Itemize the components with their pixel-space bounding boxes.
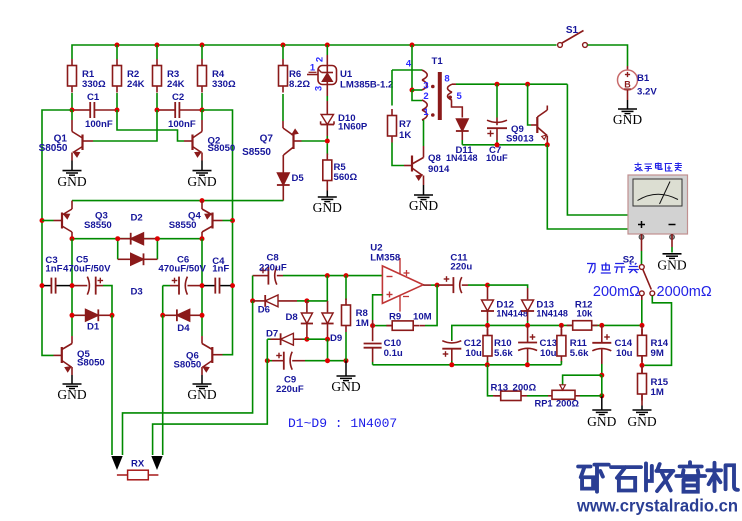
ground GND meter — [657, 254, 686, 273]
label digital voltmeter — [635, 163, 683, 172]
wire C14 col down — [601, 375, 603, 396]
resistor R8 1M — [342, 276, 369, 361]
watermark url — [576, 496, 738, 516]
svg-text:1: 1 — [423, 107, 429, 118]
junction R8 bottom / GND — [344, 358, 349, 363]
ground GND Q6 — [187, 375, 216, 402]
resistor R2 24K — [113, 59, 145, 93]
ground GND R15 — [627, 406, 656, 430]
resistor R4 330 — [198, 59, 237, 93]
wire Q4 base stub — [223, 220, 233, 222]
op-amp U2 LM358 — [370, 243, 423, 312]
pin 5 T1 lead — [452, 91, 463, 118]
junction top rail x=157 — [155, 43, 160, 48]
capacitor C1 100nF — [74, 92, 115, 130]
wire D6 node to probe — [123, 301, 253, 455]
svg-text:2: 2 — [423, 91, 428, 102]
label D1-D9 type — [288, 416, 397, 431]
svg-text:GND: GND — [331, 379, 360, 394]
svg-text:24K: 24K — [167, 79, 185, 90]
junction Q4 emitter — [200, 198, 205, 203]
wire R10 down to R13 — [488, 365, 494, 396]
junction left rail C3 — [40, 283, 45, 288]
wire collector line — [72, 238, 202, 240]
switch S1 — [558, 25, 588, 47]
transistor Q1 S8050 — [39, 110, 93, 161]
pin 2 T1 label — [423, 91, 428, 102]
wire pin1 to Q8 collector — [423, 120, 425, 146]
capacitor C7 10uF — [486, 84, 508, 163]
potentiometer RP1 200 — [535, 385, 581, 409]
svg-text:GND: GND — [409, 198, 438, 213]
resistor R11 5.6k — [557, 325, 589, 364]
svg-text:10k: 10k — [576, 309, 593, 320]
junction bottom line x=487.5 — [485, 362, 490, 367]
svg-text:10u: 10u — [616, 348, 633, 359]
junction y=110 x=117 — [115, 108, 120, 113]
svg-text:24K: 24K — [127, 79, 145, 90]
junction D4 left / C6 — [160, 313, 165, 318]
svg-text:D3: D3 — [131, 287, 143, 298]
diode D9 1N4007 — [321, 301, 342, 344]
wire Q7 base to node — [302, 140, 328, 142]
transistor Q3 S8550 — [54, 201, 112, 239]
wire R2 bottom — [116, 93, 118, 110]
svg-text:S2: S2 — [623, 255, 635, 266]
svg-text:10uF: 10uF — [486, 153, 508, 163]
junction R14 bottom — [640, 363, 645, 368]
junction D1 left — [70, 313, 75, 318]
wire S1 to B1 — [588, 45, 628, 66]
svg-text:220u: 220u — [450, 262, 472, 273]
junction C9 left / D7 wire — [265, 358, 270, 363]
resistor R3 24K — [153, 59, 185, 93]
wire D3 bypass left — [117, 239, 119, 260]
ground GND Q5 — [57, 375, 86, 402]
wire D11 C7 Q9 emitter — [462, 144, 547, 146]
svg-text:C1: C1 — [87, 92, 100, 103]
meter plus lead — [641, 234, 643, 264]
junction bottom line x=452 — [449, 362, 454, 367]
svg-text:1K: 1K — [399, 130, 411, 141]
transformer T1 label — [432, 56, 444, 67]
svg-text:8: 8 — [444, 74, 449, 85]
svg-text:T1: T1 — [432, 56, 444, 67]
wire U2 output — [423, 284, 437, 286]
wire emitter line Q3 Q4 D5 — [72, 200, 283, 202]
wire D4 node to probe — [162, 315, 164, 455]
svg-text:220uF: 220uF — [276, 384, 304, 395]
diode D1 1N4007 — [74, 309, 110, 332]
junction T1 node — [410, 88, 415, 93]
junction D1 right / C5 — [110, 313, 115, 318]
svg-text:S1: S1 — [566, 25, 579, 36]
wire D12 to D13 top — [488, 285, 528, 288]
svg-text:Q8: Q8 — [428, 153, 441, 164]
capacitor C13 10u — [518, 325, 557, 364]
resistor RX — [117, 459, 158, 480]
junction y=110 x=157 — [155, 108, 160, 113]
transformer T1 primary winding — [422, 70, 427, 120]
wire R1 bottom — [71, 93, 73, 110]
junction C7 top — [495, 82, 500, 87]
junction row325 C14 top — [599, 323, 604, 328]
svg-text:D7: D7 — [266, 329, 278, 340]
pin 8 T1 lead — [444, 74, 456, 85]
wire left rail — [42, 110, 72, 355]
ground GND R5 — [313, 191, 342, 216]
junction C8 left / D6 left — [250, 298, 255, 303]
wire to meter plus-side — [567, 84, 628, 215]
pin 1 T1 lead — [422, 107, 429, 120]
svg-text:10M: 10M — [413, 312, 432, 323]
junction U2 output — [435, 283, 440, 288]
transistor Q5 S8050 — [54, 336, 105, 375]
capacitor C5 470uF/50V — [63, 254, 112, 315]
svg-text:S8050: S8050 — [39, 143, 68, 154]
svg-text:S9013: S9013 — [506, 134, 534, 145]
ground GND Q1 — [57, 161, 86, 190]
wire U2 plus input — [373, 295, 383, 320]
capacitor C12 10u — [442, 338, 482, 365]
svg-text:U1: U1 — [340, 69, 353, 80]
junction row325 R10 top — [485, 323, 490, 328]
battery B1 3.2V — [618, 66, 658, 100]
svg-text:B1: B1 — [637, 73, 650, 84]
svg-text:S8550: S8550 — [169, 220, 197, 231]
transistor Q9 S9013 — [506, 84, 547, 144]
ground GND RP1 node — [587, 396, 616, 429]
polarity dot pin5 — [448, 96, 452, 100]
wire Q4 collector drop — [201, 239, 203, 336]
meter minus lead — [671, 234, 673, 253]
junction right drop Q4 base — [230, 218, 235, 223]
wire D1 node to probe — [111, 315, 113, 455]
svg-text:D2: D2 — [131, 212, 143, 223]
svg-text:5.6k: 5.6k — [570, 348, 589, 359]
svg-text:3: 3 — [423, 81, 428, 92]
svg-text:S8050: S8050 — [77, 358, 105, 369]
wire D9 node down — [327, 339, 329, 361]
svg-text:1N60P: 1N60P — [338, 122, 368, 133]
svg-text:D5: D5 — [292, 173, 305, 184]
wire R2 top — [116, 45, 118, 59]
wire feedback — [425, 285, 437, 326]
svg-text:330Ω: 330Ω — [212, 79, 236, 90]
capacitor C4 1nF — [204, 256, 231, 294]
svg-text:560Ω: 560Ω — [334, 172, 358, 183]
svg-text:10u: 10u — [465, 348, 482, 359]
label 200m — [593, 284, 640, 300]
wire C9 line — [305, 360, 346, 362]
svg-text:5.6k: 5.6k — [494, 348, 513, 359]
junction Q9 base — [525, 82, 530, 87]
svg-text:1N4148: 1N4148 — [446, 153, 478, 163]
junction right drop C4 — [230, 283, 235, 288]
svg-text:3.2V: 3.2V — [637, 87, 657, 98]
pin 3 T1 label — [423, 81, 428, 92]
svg-text:Q7: Q7 — [260, 134, 274, 145]
wire node157 to Q1 base — [93, 110, 157, 141]
wire R6 top — [282, 45, 284, 59]
svg-text:GND: GND — [313, 200, 342, 215]
svg-text:LM358: LM358 — [370, 253, 401, 264]
wire R7 to Q8 base — [392, 143, 404, 166]
junction top rail x=117 — [115, 43, 120, 48]
wire to meter minus-side — [547, 145, 628, 229]
wire RP1 to node — [580, 395, 602, 397]
svg-text:200mΩ: 200mΩ — [593, 284, 640, 300]
diode D7 1N4007 — [266, 329, 307, 345]
diode D12 1N4148 — [481, 285, 528, 325]
junction C8/D6 branch — [325, 273, 330, 278]
junction R8 top — [344, 273, 349, 278]
svg-text:220uF: 220uF — [259, 263, 287, 274]
ground GND R8 — [331, 361, 360, 394]
resistor R1 330 — [68, 59, 107, 93]
svg-text:9M: 9M — [651, 348, 664, 359]
junction collector line x=202 — [200, 236, 205, 241]
transistor Q8 9014 — [404, 146, 450, 185]
junction y=110 x=72 — [70, 108, 75, 113]
wire C8 left drop — [252, 276, 254, 301]
junction y=110 x=202 — [200, 108, 205, 113]
junction D7/D8 — [304, 337, 309, 342]
wire R13 to RP1 — [527, 395, 548, 397]
junction C5 left — [70, 283, 75, 288]
junction collector line x=117.7 — [115, 236, 120, 241]
resistor R7 1K — [388, 70, 412, 143]
transistor Q2 S8050 — [184, 110, 235, 161]
svg-text:C2: C2 — [172, 92, 184, 103]
capacitor C9 220uF — [267, 352, 305, 395]
transformer T1 core — [438, 72, 442, 120]
resistor R13 200 — [491, 382, 537, 400]
junction D4 right — [200, 313, 205, 318]
svg-text:D6: D6 — [258, 305, 270, 316]
svg-text:8.2Ω: 8.2Ω — [289, 79, 310, 90]
wire R4 top — [201, 45, 203, 59]
svg-text:330Ω: 330Ω — [82, 79, 106, 90]
svg-text:D1: D1 — [87, 322, 100, 333]
transistor Q7 S8550 — [242, 121, 301, 175]
meter body — [628, 175, 688, 239]
voltage reference U1 LM385B-1.2 — [318, 66, 393, 91]
svg-text:R13: R13 — [491, 382, 509, 393]
svg-text:R9: R9 — [389, 312, 401, 323]
wire node117 to Q2 base — [117, 110, 184, 141]
wire pin3 T1 — [412, 89, 422, 91]
diode D8 1N4007 — [286, 301, 314, 339]
svg-text:S8550: S8550 — [242, 147, 271, 158]
wire Q3 collector drop — [71, 239, 73, 336]
junction C7 bottom — [495, 142, 500, 147]
svg-text:3: 3 — [314, 86, 325, 91]
svg-text:D8: D8 — [286, 312, 299, 323]
resistor R10 5.6k — [483, 325, 513, 364]
diode D11 1N4148 — [446, 119, 478, 163]
svg-text:100nF: 100nF — [168, 119, 196, 130]
junction collector line x=72 — [70, 236, 75, 241]
pin 3 U1 — [314, 85, 328, 115]
svg-text:S8550: S8550 — [84, 220, 112, 231]
wire C8 to U2 minus input — [283, 275, 382, 277]
diode D10 1N60P — [321, 113, 368, 139]
label knob switch — [587, 263, 639, 274]
capacitor C2 100nF — [159, 92, 200, 130]
diode D3 1N4007 — [118, 253, 158, 297]
wire Q3 base stub — [42, 220, 54, 222]
svg-text:100nF: 100nF — [85, 119, 113, 130]
svg-text:1nF: 1nF — [45, 264, 62, 275]
watermark logo — [578, 462, 738, 492]
ground GND B1 — [613, 100, 642, 127]
svg-text:2000mΩ: 2000mΩ — [657, 284, 712, 300]
polarity dot pin3 — [431, 85, 435, 89]
capacitor C11 220u — [437, 253, 487, 294]
svg-text:S8050: S8050 — [208, 143, 236, 154]
wire R4 bottom — [201, 93, 203, 110]
svg-text:470uF/50V: 470uF/50V — [158, 264, 206, 275]
svg-text:4: 4 — [406, 59, 412, 70]
svg-text:200Ω: 200Ω — [513, 382, 537, 393]
junction top rail x=412 — [410, 43, 415, 48]
junction C9 / D9 node — [325, 358, 330, 363]
junction D6 right / D8 top — [304, 298, 309, 303]
junction D9 bottom — [325, 337, 330, 342]
svg-text:LM385B-1.2: LM385B-1.2 — [340, 80, 393, 91]
junction row325 R11 top — [559, 323, 564, 328]
transformer T1 secondary winding — [448, 84, 453, 100]
junction top rail x=327.3 — [325, 43, 330, 48]
svg-text:GND: GND — [187, 387, 216, 402]
svg-text:GND: GND — [587, 414, 616, 429]
label 2000m — [657, 284, 712, 300]
polarity dot pin1 — [431, 113, 435, 117]
svg-text:GND: GND — [627, 414, 656, 429]
svg-text:R7: R7 — [399, 119, 411, 130]
svg-text:S8050: S8050 — [174, 359, 202, 370]
wire D8-D9 bottoms — [307, 338, 328, 340]
resistor R12 10k — [567, 300, 598, 330]
wire secondary rail — [456, 83, 567, 85]
svg-text:GND: GND — [613, 112, 642, 127]
svg-text:1M: 1M — [651, 387, 664, 398]
wire R3 bottom — [156, 93, 158, 110]
svg-text:0.1u: 0.1u — [384, 348, 403, 359]
wire T1 rail drop — [411, 45, 413, 90]
junction Q9 emitter — [545, 142, 550, 147]
resistor R15 1M — [638, 365, 669, 405]
svg-text:1M: 1M — [356, 318, 369, 329]
wire row325 — [452, 325, 642, 340]
pin 2 U1 — [315, 45, 328, 66]
wire pin2 T1 — [412, 90, 422, 101]
resistor R9 10M — [373, 312, 432, 331]
svg-text:D4: D4 — [177, 323, 190, 334]
svg-text:GND: GND — [57, 387, 86, 402]
transistor Q6 S8050 — [174, 336, 223, 375]
junction RP1 right node — [599, 393, 604, 398]
capacitor C14 10u — [592, 325, 632, 375]
wire D7 node to probe — [153, 339, 268, 455]
svg-text:1nF: 1nF — [212, 264, 229, 275]
svg-text:10u: 10u — [540, 348, 557, 359]
diode D4 1N4007 — [163, 309, 200, 334]
svg-text:470uF/50V: 470uF/50V — [63, 264, 111, 275]
wire D6 node up to C8 line — [307, 276, 327, 301]
junction bottom line x=527.6 — [525, 362, 530, 367]
wire right drop to Q6 base — [202, 110, 233, 355]
resistor R6 8.2 — [279, 59, 311, 93]
ground GND Q2 — [187, 161, 216, 190]
junction wiper node — [599, 373, 604, 378]
wire S2 200m contact down — [641, 296, 643, 326]
diode D5 1N4007 — [277, 173, 305, 201]
svg-text:RP1: RP1 — [535, 399, 553, 409]
wire S2 2000m contact — [645, 296, 672, 366]
transistor Q4 S8550 — [169, 201, 223, 239]
svg-text:1N4148: 1N4148 — [536, 309, 568, 319]
junction R9 left / +in / C10 — [370, 323, 375, 328]
svg-text:RX: RX — [131, 459, 145, 470]
junction top rail x=202 — [200, 43, 205, 48]
junction D12 top — [485, 283, 490, 288]
svg-text:GND: GND — [57, 174, 86, 189]
resistor R5 560 — [323, 144, 358, 191]
pin 1 U1 — [307, 63, 318, 75]
junction collector line x=157.4 — [155, 236, 160, 241]
svg-text:D1~D9 : 1N4007: D1~D9 : 1N4007 — [288, 416, 397, 431]
junction top rail x=283 — [281, 43, 286, 48]
wire bottom line — [373, 364, 562, 366]
junction left rail Q3 base — [40, 218, 45, 223]
resistor R14 9M — [638, 325, 669, 365]
svg-text:GND: GND — [187, 174, 216, 189]
pin 4 T1 label — [406, 59, 412, 70]
probe arrow A — [111, 456, 122, 470]
probe arrow B — [151, 456, 162, 470]
wire R3 top — [156, 45, 158, 59]
svg-text:9014: 9014 — [428, 164, 450, 175]
junction row325 C13 top — [525, 323, 530, 328]
top power rail — [72, 45, 557, 59]
wire wiper line — [563, 375, 602, 385]
svg-text:2: 2 — [315, 57, 326, 62]
wire R6 to Q7 — [282, 94, 284, 121]
switch S2 — [623, 255, 655, 296]
svg-text:GND: GND — [657, 258, 686, 273]
wire pin4 T1 — [392, 69, 422, 71]
ground GND Q8 — [409, 185, 438, 213]
svg-text:200Ω: 200Ω — [556, 399, 580, 409]
diode D13 1N4148 — [521, 288, 568, 325]
junction row325 R14 top — [640, 323, 645, 328]
svg-text:5: 5 — [457, 91, 463, 102]
wire D3 bypass right — [156, 239, 158, 260]
capacitor C8 220uF — [253, 253, 287, 285]
junction C6 right — [200, 283, 205, 288]
svg-text:www.crystalradio.cn: www.crystalradio.cn — [576, 496, 738, 516]
capacitor C3 1nF — [44, 255, 70, 294]
junction Q7 base / D10 / R5 — [325, 139, 330, 144]
svg-text:B: B — [624, 80, 631, 90]
diode D6 1N4007 — [253, 295, 307, 316]
svg-text:D9: D9 — [330, 333, 342, 344]
capacitor C6 470uF/50V — [158, 254, 206, 313]
capacitor C10 0.1u — [364, 320, 403, 365]
diode D2 1N4007 — [119, 212, 155, 244]
